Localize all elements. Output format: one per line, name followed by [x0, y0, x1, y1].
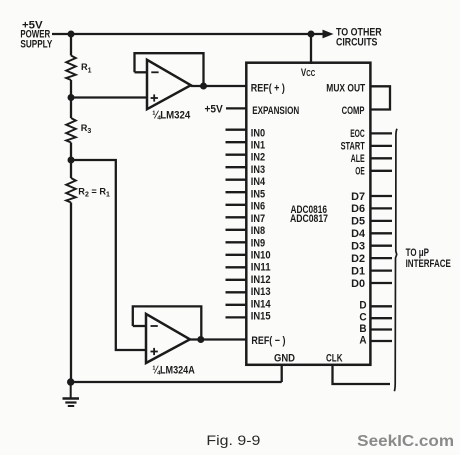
wire: left rail top: [70, 34, 72, 56]
svg-text:IN10: IN10: [251, 250, 271, 262]
node: R3/R2 junction: [68, 157, 75, 164]
svg-text:C: C: [359, 312, 366, 324]
svg-text:IN7: IN7: [251, 213, 265, 225]
resistor R1: [66, 56, 76, 81]
pin IN0: [226, 127, 266, 139]
wire: to op-amp U1 + input: [71, 96, 147, 98]
svg-text:A: A: [359, 334, 366, 346]
svg-text:IN14: IN14: [251, 298, 272, 310]
svg-text:D6: D6: [351, 203, 365, 215]
svg-text:OE: OE: [355, 166, 365, 178]
svg-text:REF( − ): REF( − ): [251, 335, 285, 347]
svg-text:IN8: IN8: [251, 225, 265, 237]
+5V power supply label: [20, 19, 52, 50]
ground: [63, 382, 80, 406]
svg-text:Fig. 9-9: Fig. 9-9: [206, 432, 260, 448]
pin IN15: [226, 311, 271, 323]
wire: U1 inverting input stub: [135, 71, 148, 73]
node: R1/R3 junction: [68, 94, 75, 101]
svg-text:IN13: IN13: [251, 286, 271, 298]
wire: rail R2 to ground: [70, 203, 72, 383]
pin ALE: [351, 153, 392, 165]
svg-text:SUPPLY: SUPPLY: [20, 39, 52, 51]
TO OTHER CIRCUITS label: [336, 27, 382, 49]
pin IN5: [226, 188, 266, 200]
svg-text:IN15: IN15: [251, 311, 271, 323]
wire: U2 inverting input stub: [133, 325, 146, 327]
svg-text:IN0: IN0: [251, 127, 265, 139]
svg-text:SeekIC.com: SeekIC.com: [357, 433, 454, 450]
svg-text:ALE: ALE: [351, 153, 365, 165]
node: U1 output: [200, 83, 207, 90]
op-amp U1 feedback wire: [135, 53, 204, 84]
node: +5V junction: [68, 31, 75, 38]
pin EOC: [350, 128, 392, 140]
arrow to other circuits: [323, 30, 334, 39]
pin IN14: [226, 298, 272, 310]
pin D6: [351, 203, 392, 215]
svg-text:REF( + ): REF( + ): [251, 82, 285, 94]
svg-text:¼LM324: ¼LM324: [152, 109, 191, 121]
svg-text:EOC: EOC: [350, 128, 365, 140]
svg-text:D5: D5: [351, 216, 365, 228]
svg-text:D7: D7: [351, 191, 365, 203]
pin D5: [351, 216, 392, 228]
pin B: [359, 323, 392, 335]
wire: U1 output to REF(+): [191, 85, 247, 87]
svg-text:GND: GND: [274, 352, 295, 364]
svg-text:ADC0817: ADC0817: [290, 213, 328, 225]
pin IN1: [226, 140, 266, 152]
pin IN13: [226, 286, 271, 298]
svg-text:COMP: COMP: [342, 105, 365, 117]
pin IN7: [226, 213, 266, 225]
svg-text:D2: D2: [351, 253, 365, 265]
svg-text:CIRCUITS: CIRCUITS: [336, 37, 377, 49]
svg-text:START: START: [341, 141, 365, 153]
svg-text:IN1: IN1: [251, 140, 265, 152]
node: ground junction: [67, 378, 74, 385]
svg-text:IN4: IN4: [251, 176, 266, 188]
TO uP INTERFACE label: [406, 247, 451, 270]
pin D7: [351, 191, 392, 203]
svg-text:D3: D3: [351, 241, 365, 253]
wire: top +5V rail: [52, 33, 324, 35]
node: U2 output: [197, 336, 204, 343]
pin IN10: [226, 250, 271, 262]
svg-text:INTERFACE: INTERFACE: [406, 258, 451, 270]
wire: rail R1-R3: [70, 80, 72, 118]
pin D1: [351, 265, 392, 277]
svg-text:+5V: +5V: [205, 104, 224, 116]
svg-text:CLK: CLK: [326, 352, 343, 364]
resistor R3: [66, 118, 76, 143]
svg-text:IN12: IN12: [251, 274, 271, 286]
IC U3 ADC0816/ADC0817 body: [246, 63, 370, 365]
wire: U2 output to REF(-): [190, 338, 247, 340]
pin IN6: [226, 201, 266, 213]
pin IN9: [226, 237, 266, 249]
svg-text:D: D: [359, 300, 366, 312]
svg-text:EXPANSION: EXPANSION: [252, 105, 299, 117]
pin IN8: [226, 225, 266, 237]
wire: +5V to EXPANSION: [226, 107, 247, 109]
resistor R2: [66, 178, 76, 203]
pin IN2: [226, 152, 266, 164]
op-amp U1 (1/4 LM324): [147, 60, 191, 109]
pin D0: [351, 278, 392, 290]
pin A: [359, 334, 392, 346]
pin IN12: [226, 274, 271, 286]
wire: bottom ground bus: [71, 381, 282, 383]
pin IN11: [226, 262, 271, 274]
svg-text:IN9: IN9: [251, 237, 265, 249]
svg-text:¼LM324A: ¼LM324A: [152, 364, 194, 376]
wire: MUX OUT to COMP loop: [370, 86, 390, 109]
svg-text:MUX OUT: MUX OUT: [326, 82, 365, 94]
pin D2: [351, 253, 392, 265]
svg-text:IN6: IN6: [251, 201, 265, 213]
pin D4: [351, 228, 392, 240]
op-amp U2 (1/4 LM324A): [146, 314, 190, 363]
bracket to uP interface: [394, 129, 397, 391]
wire: VCC drop: [310, 34, 312, 64]
wire: rail R3-R2: [70, 143, 72, 179]
op-amp U2 feedback wire: [133, 306, 202, 338]
pin C: [359, 312, 392, 324]
pin IN4: [226, 176, 266, 188]
svg-text:IN11: IN11: [251, 262, 271, 274]
svg-text:B: B: [359, 323, 366, 335]
svg-text:VCC: VCC: [301, 67, 315, 79]
wire: CLK drop: [333, 364, 391, 384]
pin OE: [355, 166, 392, 178]
wire: GND pin riser: [281, 364, 283, 382]
svg-text:D1: D1: [351, 265, 365, 277]
svg-text:IN2: IN2: [251, 152, 265, 164]
svg-text:IN5: IN5: [251, 188, 265, 200]
wire: to op-amp U2 + input: [71, 160, 146, 350]
node: VCC junction: [308, 31, 315, 38]
pin START: [341, 141, 392, 153]
pin IN3: [226, 164, 266, 176]
pin D3: [351, 241, 392, 253]
svg-text:D0: D0: [351, 278, 365, 290]
svg-text:IN3: IN3: [251, 164, 265, 176]
pin D: [359, 300, 392, 312]
svg-text:D4: D4: [351, 228, 366, 240]
